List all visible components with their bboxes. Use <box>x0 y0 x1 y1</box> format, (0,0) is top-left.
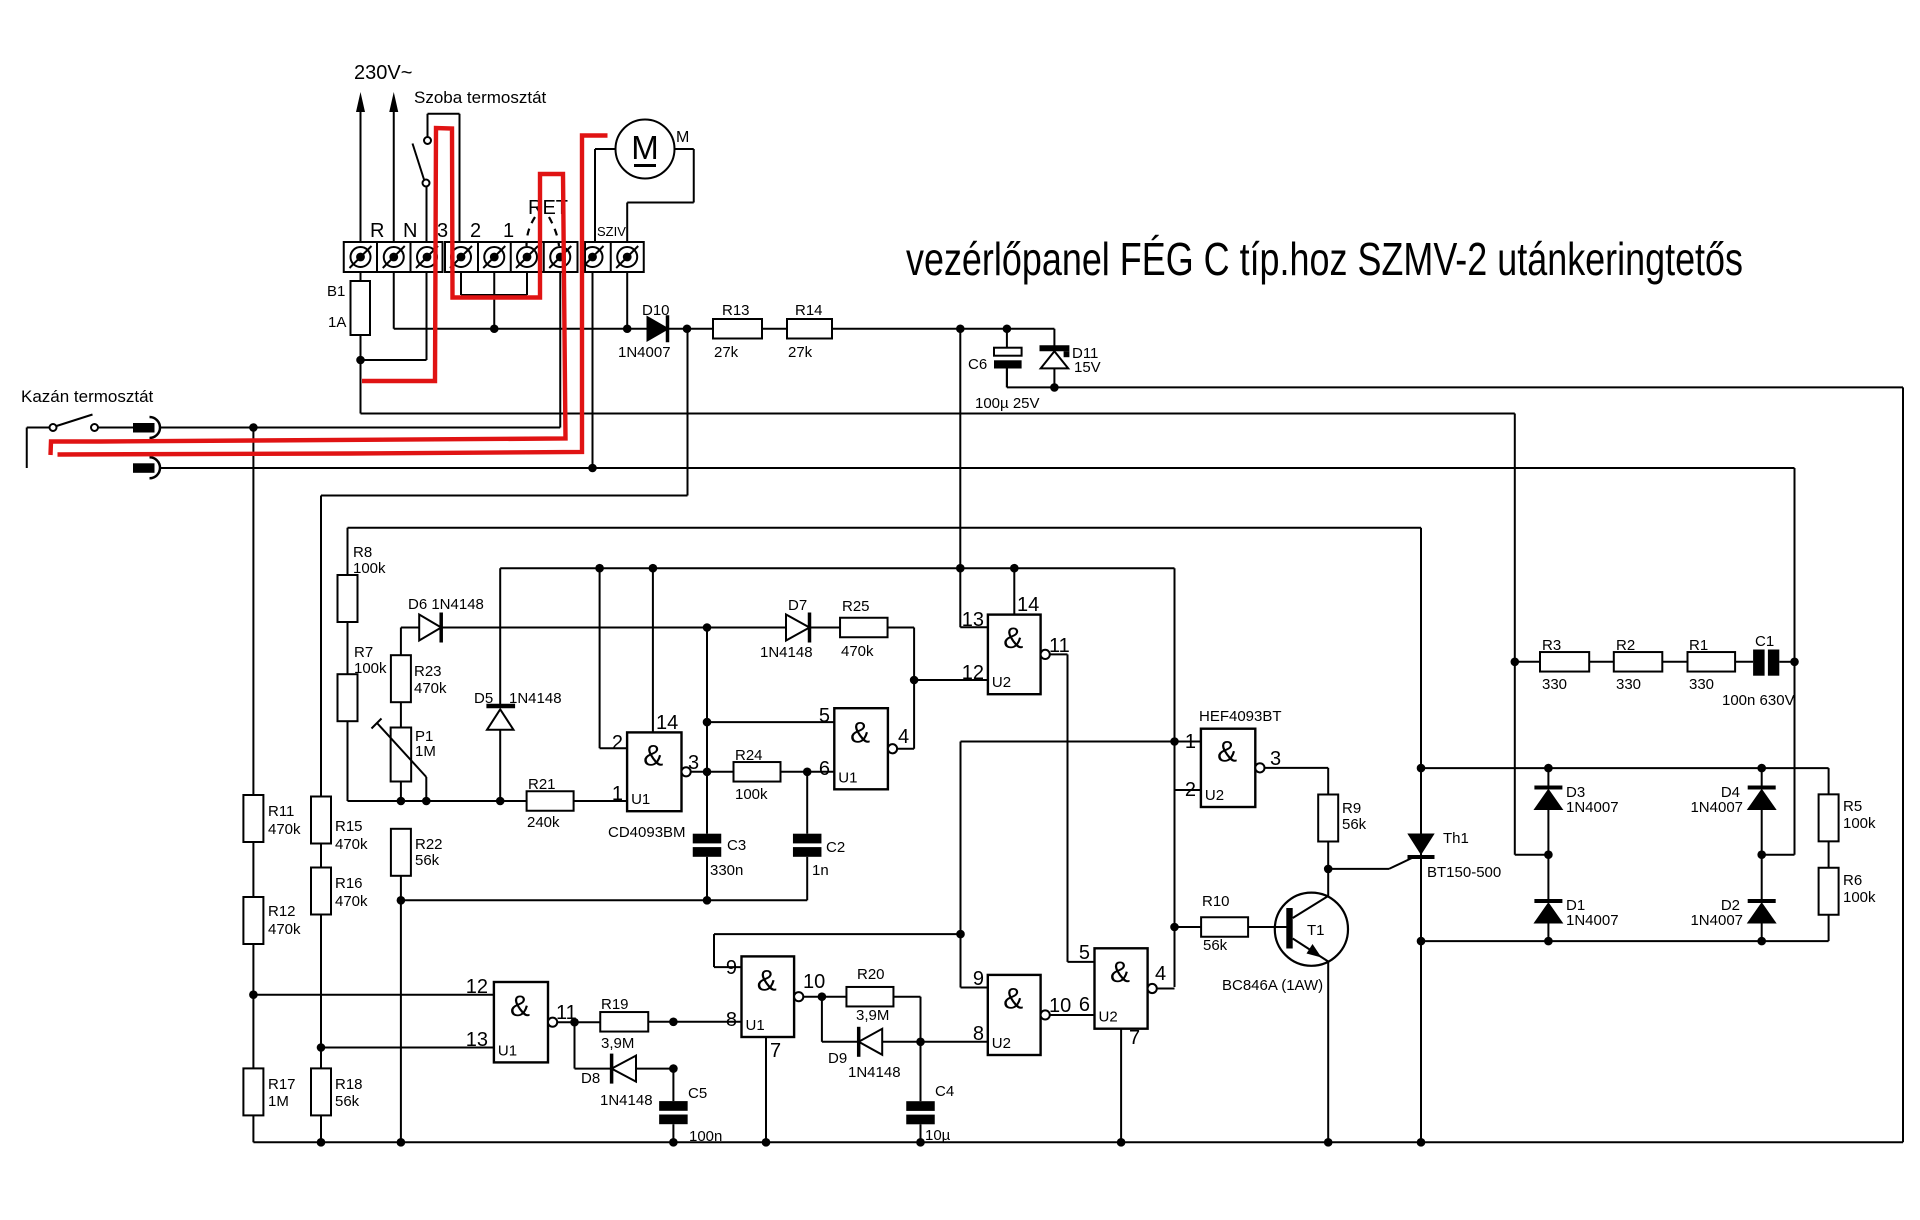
svg-text:27k: 27k <box>788 344 813 361</box>
svg-text:1N4007: 1N4007 <box>618 344 671 361</box>
diode D9 <box>821 997 823 1042</box>
resistor R5 <box>1828 768 1830 794</box>
wire out10 to pin6 <box>1050 1014 1095 1016</box>
svg-text:D9: D9 <box>828 1050 847 1067</box>
connector plug lower <box>133 463 155 473</box>
svg-text:1: 1 <box>503 220 514 242</box>
svg-text:&: & <box>1217 736 1237 769</box>
wire pin12 <box>253 994 494 996</box>
svg-text:C5: C5 <box>688 1085 707 1102</box>
wire D10 branch down <box>687 329 689 496</box>
svg-text:1n: 1n <box>812 862 829 879</box>
svg-text:4: 4 <box>898 726 909 748</box>
wire VDD right corner <box>1174 568 1176 987</box>
diode D8 <box>574 1022 576 1069</box>
svg-text:1N4148: 1N4148 <box>848 1064 901 1081</box>
svg-text:D10: D10 <box>642 302 670 319</box>
terminal screw <box>550 247 570 267</box>
wire pin7 U2b <box>1120 1029 1122 1143</box>
svg-text:R1: R1 <box>1689 637 1708 654</box>
wire red marker path 1 <box>51 128 566 455</box>
terminal N <box>384 247 404 267</box>
resistor R3 <box>1540 652 1589 672</box>
svg-text:R8: R8 <box>353 544 372 561</box>
wire gate4 to R25 node <box>897 748 914 750</box>
wire out11 to pin5 riser <box>1050 653 1068 655</box>
svg-text:2: 2 <box>612 732 623 754</box>
wire VDD rail <box>500 567 1174 569</box>
wire pin1 net to pin9 <box>961 741 1175 743</box>
svg-text:240k: 240k <box>527 814 560 831</box>
svg-text:470k: 470k <box>335 836 368 853</box>
svg-text:100k: 100k <box>354 660 387 677</box>
wire N phase with arrow <box>393 104 395 329</box>
svg-text:U1: U1 <box>631 791 650 808</box>
wire C3 C2 bottom rail <box>401 899 807 901</box>
resistor R15 <box>311 797 331 844</box>
svg-text:vezérlőpanel FÉG C típ.hoz SZM: vezérlőpanel FÉG C típ.hoz SZMV-2 utánke… <box>906 233 1743 285</box>
nand gate U2b (5,6 -> 4) <box>1095 948 1148 1028</box>
wire out4 to R10 node <box>1157 988 1175 990</box>
svg-text:U2: U2 <box>992 1035 1011 1052</box>
svg-text:R15: R15 <box>335 818 363 835</box>
resistor R16 <box>311 868 331 915</box>
svg-text:R6: R6 <box>1843 872 1862 889</box>
terminal screw <box>517 247 537 267</box>
diode D5 <box>499 568 501 704</box>
resistor R14 <box>787 319 832 339</box>
svg-text:1N4007: 1N4007 <box>1566 799 1619 816</box>
svg-text:R3: R3 <box>1542 637 1561 654</box>
wire terminal 1 down <box>493 272 495 329</box>
wire pin9 branch <box>714 933 961 935</box>
svg-text:6: 6 <box>819 758 830 780</box>
svg-text:470k: 470k <box>335 893 368 910</box>
wire ground return line <box>1006 368 1008 387</box>
wire phase line to bridge mid <box>361 413 1515 415</box>
svg-text:C4: C4 <box>935 1083 954 1100</box>
svg-text:&: & <box>757 964 777 997</box>
wire motor right to terminal 9 <box>675 148 694 150</box>
svg-text:C2: C2 <box>826 839 845 856</box>
svg-text:470k: 470k <box>268 821 301 838</box>
svg-text:R13: R13 <box>722 302 750 319</box>
nand gate U2c HEF4093BT <box>1201 729 1255 807</box>
wire R11 column <box>252 428 254 796</box>
svg-text:D8: D8 <box>581 1070 600 1087</box>
resistor R17 <box>243 1068 263 1115</box>
svg-text:10: 10 <box>1049 995 1071 1017</box>
wire kazan lower line <box>160 467 1795 469</box>
svg-text:9: 9 <box>973 968 984 990</box>
resistor R18 <box>311 1068 331 1115</box>
resistor R2 <box>1614 652 1663 672</box>
wire switch top to terminal 2 <box>427 114 429 137</box>
wire switch bottom return <box>426 187 428 361</box>
svg-text:1N4148: 1N4148 <box>760 644 813 661</box>
svg-text:1A: 1A <box>328 314 346 331</box>
svg-text:D5: D5 <box>474 690 493 707</box>
wire U1 pin14 riser <box>652 568 654 732</box>
wire kazan upper line <box>160 427 560 429</box>
svg-text:7: 7 <box>770 1040 781 1062</box>
svg-text:1N4007: 1N4007 <box>1690 799 1743 816</box>
svg-text:SZIV: SZIV <box>597 224 626 239</box>
svg-text:T1: T1 <box>1307 922 1325 939</box>
svg-text:8: 8 <box>973 1023 984 1045</box>
svg-text:U2: U2 <box>992 674 1011 691</box>
svg-text:100k: 100k <box>1843 815 1876 832</box>
triac Th1 BT150-500 <box>1420 528 1422 1143</box>
svg-text:R10: R10 <box>1202 893 1230 910</box>
svg-text:5: 5 <box>1079 942 1090 964</box>
resistor R9 <box>1318 795 1338 842</box>
wire pin2 <box>1175 789 1201 791</box>
capacitor C3 <box>706 628 708 834</box>
svg-text:C3: C3 <box>727 837 746 854</box>
svg-text:R9: R9 <box>1342 800 1361 817</box>
diode D4 <box>1761 768 1763 787</box>
resistor R13 <box>713 319 762 339</box>
svg-text:3,9M: 3,9M <box>601 1035 634 1052</box>
resistor R10 <box>1175 926 1202 928</box>
resistor R23 <box>391 655 411 702</box>
diode D1 <box>1534 899 1562 903</box>
diode D2 <box>1748 899 1776 903</box>
svg-text:10: 10 <box>803 971 825 993</box>
nand gate U2d (9,8 -> 10) <box>988 975 1041 1055</box>
diode D10 <box>648 317 668 340</box>
diode D3 <box>1547 768 1549 787</box>
svg-text:&: & <box>643 739 663 772</box>
svg-text:M: M <box>631 129 659 166</box>
svg-text:15V: 15V <box>1074 359 1101 376</box>
svg-text:C1: C1 <box>1755 633 1774 650</box>
svg-text:R7: R7 <box>354 644 373 661</box>
svg-text:56k: 56k <box>1342 816 1367 833</box>
wire T1 collector gate feed <box>1328 868 1389 870</box>
svg-text:R20: R20 <box>857 966 885 983</box>
potentiometer P1 <box>391 728 412 782</box>
svg-text:R2: R2 <box>1616 637 1635 654</box>
wire pin13 <box>321 1047 494 1049</box>
switch szoba thermostat <box>424 137 431 144</box>
svg-text:13: 13 <box>962 609 984 631</box>
terminal R <box>351 247 371 267</box>
svg-text:&: & <box>1003 983 1023 1016</box>
svg-text:R: R <box>370 220 384 242</box>
svg-text:U2: U2 <box>1099 1009 1118 1026</box>
svg-text:56k: 56k <box>335 1093 360 1110</box>
svg-text:12: 12 <box>962 662 984 684</box>
svg-text:3: 3 <box>688 752 699 774</box>
svg-text:U2: U2 <box>1205 787 1224 804</box>
wire pin1 <box>1175 741 1201 743</box>
motor M <box>616 120 675 179</box>
svg-text:1N4007: 1N4007 <box>1690 912 1743 929</box>
wire gate3 out to R9 <box>1265 767 1329 769</box>
wire out11 node <box>557 1021 600 1023</box>
svg-text:HEF4093BT: HEF4093BT <box>1199 708 1282 725</box>
wire U2 pin14 riser <box>1013 568 1015 614</box>
svg-text:D7: D7 <box>788 597 807 614</box>
capacitor C2 <box>806 772 808 834</box>
resistor R12 <box>243 897 263 944</box>
resistor R20 <box>846 987 893 1007</box>
svg-text:330: 330 <box>1616 676 1641 693</box>
wire motor left to SZIV terminal <box>595 148 616 150</box>
svg-text:100k: 100k <box>1843 889 1876 906</box>
wire supply riser <box>959 329 961 627</box>
wire P1 bottom rail <box>348 800 527 802</box>
zener D11 <box>1053 329 1055 348</box>
resistor R22 <box>391 829 411 876</box>
svg-text:1M: 1M <box>415 743 436 760</box>
svg-text:470k: 470k <box>414 680 447 697</box>
resistor R24 <box>734 762 781 782</box>
wire pin12 feed <box>914 679 988 681</box>
wire bridge bottom <box>1421 940 1829 942</box>
terminal 3 <box>417 247 437 267</box>
wire pin5 U2b <box>1068 961 1095 963</box>
resistor R6 <box>1819 868 1839 915</box>
svg-text:2: 2 <box>470 220 481 242</box>
svg-text:330n: 330n <box>710 862 743 879</box>
svg-text:1N4007: 1N4007 <box>1566 912 1619 929</box>
diode D7 <box>786 615 810 641</box>
svg-text:R21: R21 <box>528 776 556 793</box>
svg-text:Szoba termosztát: Szoba termosztát <box>414 88 547 107</box>
resistor R8 <box>338 575 358 622</box>
svg-text:4: 4 <box>1155 963 1166 985</box>
svg-text:R16: R16 <box>335 875 363 892</box>
svg-text:5: 5 <box>819 705 830 727</box>
fuse B1 <box>351 281 371 335</box>
svg-text:14: 14 <box>1017 594 1039 616</box>
wire main supply line <box>394 328 648 330</box>
svg-text:27k: 27k <box>714 344 739 361</box>
wire terminal 8 to lower kazan line <box>592 272 594 468</box>
resistor R7 <box>338 674 358 721</box>
wire bridge top <box>1421 767 1829 769</box>
resistor R19 <box>600 1012 648 1032</box>
svg-text:R11: R11 <box>268 803 294 820</box>
svg-text:U1: U1 <box>838 769 857 786</box>
svg-text:&: & <box>1110 956 1130 989</box>
svg-text:56k: 56k <box>1203 937 1228 954</box>
svg-text:R22: R22 <box>415 836 443 853</box>
svg-text:M: M <box>676 129 689 146</box>
svg-text:1N4148: 1N4148 <box>509 690 562 707</box>
svg-text:1M: 1M <box>268 1093 289 1110</box>
diode D6 <box>401 627 419 629</box>
svg-text:R12: R12 <box>268 903 296 920</box>
wire pin7 U1c <box>765 1037 767 1142</box>
nand gate U1b <box>834 708 888 789</box>
wire fuse bottom junction <box>360 335 362 414</box>
wire terminal 2-6 link <box>460 272 462 295</box>
svg-text:100k: 100k <box>735 786 768 803</box>
wire pin5 <box>707 721 834 723</box>
svg-text:3: 3 <box>437 220 448 242</box>
resistor R11 <box>243 795 263 842</box>
svg-text:6: 6 <box>1079 994 1090 1016</box>
svg-text:R14: R14 <box>795 302 823 319</box>
svg-text:14: 14 <box>656 712 678 734</box>
capacitor C1 <box>1753 650 1765 676</box>
svg-text:N: N <box>403 220 417 242</box>
wire lower kazan to right <box>1794 468 1796 855</box>
svg-text:330: 330 <box>1689 676 1714 693</box>
connector plug upper <box>133 423 155 433</box>
svg-text:&: & <box>850 716 870 749</box>
resistor R25 <box>840 618 888 638</box>
transistor T1 BC846A <box>1275 893 1348 966</box>
terminal screw <box>583 247 603 267</box>
resistor R21 <box>527 791 574 811</box>
capacitor C4 <box>906 1101 935 1111</box>
wire snubber line <box>1515 661 1540 663</box>
wire red marker path 2 <box>58 136 608 455</box>
svg-text:470k: 470k <box>841 643 874 660</box>
nand gate U1c (9,8 -> 10) <box>742 956 795 1037</box>
terminal strip boxes <box>344 242 443 272</box>
svg-text:1: 1 <box>612 783 623 805</box>
wire R8 top line <box>348 527 1422 529</box>
svg-text:U1: U1 <box>746 1017 765 1034</box>
svg-text:230V~: 230V~ <box>354 62 412 84</box>
wire terminal 7 to kazan line <box>559 272 561 428</box>
svg-text:9: 9 <box>726 957 737 979</box>
svg-text:BC846A (1AW): BC846A (1AW) <box>1222 977 1323 994</box>
wire R phase with arrow <box>360 104 362 281</box>
svg-text:U1: U1 <box>498 1042 517 1059</box>
resistor R1 <box>1688 652 1736 672</box>
svg-text:Th1: Th1 <box>1443 830 1469 847</box>
svg-text:&: & <box>510 990 530 1023</box>
capacitor C5 <box>672 1069 674 1102</box>
svg-text:R17: R17 <box>268 1076 296 1093</box>
svg-text:330: 330 <box>1542 676 1567 693</box>
terminal 2 <box>451 247 471 267</box>
svg-text:1N4148: 1N4148 <box>600 1092 653 1109</box>
wire right edge vertical <box>1902 387 1904 1142</box>
svg-text:3,9M: 3,9M <box>856 1007 889 1024</box>
nand gate U2a <box>988 615 1041 695</box>
svg-text:R5: R5 <box>1843 798 1862 815</box>
wire U1 pin2 riser <box>599 568 601 748</box>
svg-text:R24: R24 <box>735 747 763 764</box>
terminal 1 <box>484 247 504 267</box>
svg-text:R18: R18 <box>335 1076 363 1093</box>
svg-text:R19: R19 <box>601 996 629 1013</box>
wire pin8 U2d <box>921 1041 988 1043</box>
svg-text:R25: R25 <box>842 598 870 615</box>
wire left loop vertical <box>320 496 322 797</box>
svg-text:100µ 25V: 100µ 25V <box>975 395 1040 412</box>
wire out10 node <box>803 996 846 998</box>
svg-text:100n 630V: 100n 630V <box>1722 692 1795 709</box>
svg-text:Kazán termosztát: Kazán termosztát <box>21 387 154 406</box>
nand gate U1d (12,13 -> 11) <box>494 982 548 1062</box>
svg-text:&: & <box>1003 622 1023 655</box>
wire terminal 9 down <box>626 272 628 329</box>
svg-text:8: 8 <box>726 1009 737 1031</box>
wire U1 pin13 feed <box>960 626 988 628</box>
wire bottom bus <box>253 1141 1903 1143</box>
svg-text:3: 3 <box>1270 748 1281 770</box>
svg-text:CD4093BM: CD4093BM <box>608 824 686 841</box>
svg-text:D6 1N4148: D6 1N4148 <box>408 596 484 613</box>
terminal screw <box>617 247 637 267</box>
switch kazan thermostat <box>26 428 28 469</box>
svg-text:56k: 56k <box>415 852 440 869</box>
svg-text:100k: 100k <box>353 560 386 577</box>
svg-text:7: 7 <box>1129 1027 1140 1049</box>
capacitor C6 electrolytic <box>1006 329 1008 348</box>
svg-text:BT150-500: BT150-500 <box>1427 864 1501 881</box>
svg-text:470k: 470k <box>268 921 301 938</box>
svg-text:R23: R23 <box>414 663 442 680</box>
wire gate3 output <box>691 771 734 773</box>
svg-text:B1: B1 <box>327 283 345 300</box>
svg-text:C6: C6 <box>968 356 987 373</box>
nand gate U1a CD4093 <box>627 732 681 811</box>
